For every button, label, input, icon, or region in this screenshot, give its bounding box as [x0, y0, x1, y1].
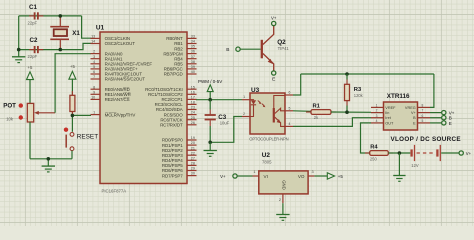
svg-text:V+: V+	[466, 151, 472, 156]
svg-text:E: E	[449, 121, 452, 126]
svg-text:38: 38	[191, 60, 195, 64]
U3 pin 1	[242, 95, 250, 100]
XTR116 pin 1 VREF	[371, 104, 396, 110]
svg-text:28: 28	[191, 162, 195, 166]
U1 pin 9 RE1	[91, 90, 132, 97]
ground (loop supply)	[393, 153, 405, 181]
svg-text:U1: U1	[96, 25, 105, 32]
svg-text:18: 18	[191, 101, 195, 105]
wire RESET bottom to ground rail	[30, 151, 72, 159]
wire ground drop from C1/C2 left plates	[18, 16, 20, 57]
U1 pin 6 RA4	[91, 70, 143, 77]
svg-text:17: 17	[191, 96, 195, 100]
XTR116 pin 7 V+	[411, 109, 430, 115]
U1 pin 23 RC4	[156, 106, 197, 113]
svg-text:V+: V+	[411, 111, 417, 115]
wire POT bottom to ground rail	[29, 122, 31, 159]
U1 pin 27 RD4	[162, 156, 197, 163]
junction battery/ground	[398, 151, 402, 155]
label VLOOP / DC SOURCE	[391, 136, 461, 143]
U1 pin 19 RD0	[162, 136, 197, 143]
ground (oscillator)	[12, 57, 25, 63]
node V+ (battery)	[441, 151, 471, 156]
U1 pin 8 RE0	[91, 85, 131, 92]
svg-text:R4: R4	[370, 144, 378, 150]
node B terminal	[226, 47, 240, 53]
svg-text:15: 15	[191, 85, 195, 89]
U1 pin 40 RB7	[164, 70, 197, 77]
resistor R4 250	[365, 144, 393, 161]
capacitor C3 10uF	[205, 100, 230, 143]
svg-text:13: 13	[91, 35, 95, 39]
U1 pin 2 RA0	[91, 50, 124, 57]
svg-text:RE1/AN6/W̅R̅: RE1/AN6/W̅R̅	[105, 91, 131, 97]
svg-text:R1: R1	[313, 103, 321, 109]
svg-text:7805: 7805	[262, 159, 272, 164]
svg-text:V+: V+	[271, 15, 277, 20]
U1 pin 17 RC2	[161, 96, 196, 103]
svg-text:RD7/PSP7: RD7/PSP7	[162, 173, 183, 178]
svg-text:OPTOCOUPLER-NPN: OPTOCOUPLER-NPN	[249, 137, 288, 142]
U1 pin 18 RC3	[155, 101, 197, 108]
U1 pin 1 M&#x305;C&#x305;L&#x305;R&#x305;	[91, 111, 136, 118]
regulator U2 7805	[253, 152, 315, 203]
svg-text:19: 19	[191, 136, 195, 140]
junction R1/R3	[345, 110, 349, 114]
svg-text:+5: +5	[28, 65, 34, 70]
svg-text:4: 4	[289, 122, 291, 126]
svg-text:22pF: 22pF	[28, 21, 38, 26]
junction C1/crystal	[59, 14, 63, 18]
svg-text:33: 33	[191, 35, 195, 39]
wire C2 net / crystal bottom to OSC2	[19, 43, 91, 49]
potentiometer POT 10k	[3, 103, 55, 122]
U1 pin 24 RC5	[164, 111, 197, 118]
svg-text:6: 6	[93, 70, 95, 74]
ground (7805)	[276, 203, 289, 220]
U3 pin 2	[242, 112, 250, 117]
svg-text:39: 39	[191, 65, 195, 69]
svg-text:1: 1	[243, 95, 245, 99]
node V+ (XTR)	[430, 110, 455, 115]
svg-text:1: 1	[93, 111, 95, 115]
U1 pin 33 RB0	[166, 35, 196, 42]
wire opto pin4 to XTR Iret	[293, 118, 371, 127]
wire XTR OUT down to R4	[361, 123, 372, 153]
U1 pin 26 RC7	[160, 121, 196, 128]
svg-text:VI: VI	[264, 174, 268, 179]
U1 pin 28 RD5	[162, 162, 197, 169]
svg-text:22: 22	[191, 151, 195, 155]
U1 pin 38 RB5	[174, 60, 196, 67]
svg-text:PWM / 0-5V: PWM / 0-5V	[198, 79, 222, 84]
XTR116 pin 4 OUT	[371, 119, 394, 125]
svg-text:C2: C2	[30, 37, 38, 44]
U3 internal phototransistor	[274, 96, 285, 127]
svg-text:10: 10	[91, 96, 95, 100]
junction C2/crystal	[59, 48, 63, 52]
wire C1 net to crystal top and OSC1	[19, 16, 91, 38]
svg-text:5: 5	[289, 106, 291, 110]
svg-text:40: 40	[191, 70, 195, 74]
wire opto pin6 to top rail	[293, 74, 301, 95]
svg-text:21: 21	[191, 146, 195, 150]
svg-text:2: 2	[243, 112, 245, 116]
svg-text:16: 16	[191, 90, 195, 94]
resistor R2 pull-up	[70, 91, 75, 115]
optocoupler U3 body	[249, 87, 288, 142]
op-amp XTR116 body	[384, 93, 418, 130]
XTR116 pin 5 E	[413, 119, 430, 125]
U1 pin 22 RD3	[162, 151, 197, 158]
svg-text:20: 20	[191, 141, 195, 145]
wire opto pin5 to R1	[293, 110, 311, 113]
node PWM / 0-5V	[198, 79, 222, 100]
svg-text:POT: POT	[3, 103, 16, 110]
U1 pin 34 RB1	[174, 40, 196, 47]
svg-text:RB7/PGD: RB7/PGD	[164, 72, 183, 77]
transistor Q2 TIP41	[262, 26, 290, 71]
svg-text:1: 1	[376, 104, 378, 108]
svg-text:2: 2	[93, 50, 95, 54]
U3 internal LED	[250, 100, 265, 117]
svg-text:U3: U3	[251, 87, 260, 94]
svg-text:30: 30	[191, 172, 195, 176]
XTR116 pin 6 B	[413, 114, 430, 120]
U1 pin 35 RB2	[174, 45, 196, 52]
U1 pin 39 RB6	[164, 65, 197, 72]
svg-text:24: 24	[191, 111, 195, 115]
svg-text:27: 27	[191, 156, 195, 160]
svg-text:8: 8	[93, 85, 95, 89]
wire VREG to top rail	[430, 74, 434, 107]
junction PWM/C3	[208, 98, 212, 102]
junction C2/ground	[17, 48, 21, 52]
svg-text:250: 250	[370, 157, 378, 162]
svg-text:RA5/AN4/S̅S̅/C2OUT: RA5/AN4/S̅S̅/C2OUT	[105, 76, 146, 82]
svg-text:23: 23	[191, 106, 195, 110]
XTR116 pin 8 VREG	[405, 104, 430, 110]
svg-text:X1: X1	[72, 30, 80, 37]
junction MCLR	[71, 114, 75, 118]
U1 pin 14 OSC2	[91, 40, 136, 47]
svg-text:4: 4	[93, 60, 95, 64]
svg-text:PIC16F877A: PIC16F877A	[102, 188, 127, 193]
svg-text:VREF: VREF	[385, 106, 396, 110]
svg-text:OUT: OUT	[385, 121, 394, 125]
svg-text:OSC2/CLKOUT: OSC2/CLKOUT	[105, 41, 136, 46]
U3 pin 4	[285, 122, 293, 127]
svg-text:4: 4	[376, 119, 378, 123]
junction ground rail	[47, 157, 51, 161]
svg-text:6: 6	[289, 91, 291, 95]
wire MCLR net	[72, 115, 91, 131]
resistor R1 2k	[306, 103, 336, 120]
svg-text:RESET: RESET	[77, 133, 98, 140]
capacitor C1	[28, 4, 44, 26]
svg-text:TIP41: TIP41	[278, 46, 290, 51]
ground (C3)	[204, 142, 217, 156]
U1 pin 25 RC6	[160, 116, 196, 123]
svg-text:22pF: 22pF	[28, 54, 38, 59]
power +5 output arrow	[314, 173, 343, 179]
svg-text:VO: VO	[298, 174, 305, 179]
wire R4 to battery	[388, 152, 410, 154]
U1 pin 30 RD7	[162, 172, 197, 179]
svg-text:Iret: Iret	[385, 116, 391, 120]
svg-text:5: 5	[422, 119, 424, 123]
svg-text:+5: +5	[338, 174, 344, 179]
wire POT wiper to RA0	[55, 54, 91, 113]
wire B to Q2 base	[240, 48, 261, 50]
svg-text:7: 7	[93, 75, 95, 79]
wire V+ to U2 VI	[237, 175, 252, 177]
svg-text:37: 37	[191, 55, 195, 59]
svg-text:3: 3	[376, 114, 378, 118]
junction C3/ground	[208, 141, 212, 145]
svg-text:36: 36	[191, 50, 195, 54]
svg-text:E: E	[272, 77, 275, 83]
node V+ (Q2 collector)	[271, 15, 277, 25]
XTR116 pin 2 Iin	[371, 109, 389, 115]
U1 pin 10 RE2	[91, 96, 131, 103]
XTR116 pin 3 Iret	[371, 114, 392, 120]
svg-text:26: 26	[191, 121, 195, 125]
op-amp U1 PIC16F877A body	[96, 25, 187, 194]
U1 pin 16 RC1	[148, 90, 197, 97]
wire R1 to XTR Iin	[331, 111, 371, 113]
svg-text:2: 2	[376, 109, 378, 113]
svg-text:+5: +5	[70, 64, 76, 69]
battery 12V	[411, 145, 440, 168]
svg-text:Iin: Iin	[385, 111, 389, 115]
node V+ (7805 input)	[220, 174, 237, 179]
wire top rail	[301, 73, 434, 75]
junction rail/R3	[345, 72, 349, 76]
U1 pin 20 RD1	[162, 141, 197, 148]
svg-text:35: 35	[191, 45, 195, 49]
wire RC2 to opto pin1	[196, 99, 242, 101]
push button RESET	[64, 128, 98, 151]
svg-text:XTR116: XTR116	[387, 93, 410, 100]
U1 pin 37 RB4	[174, 55, 196, 62]
svg-text:8: 8	[422, 104, 424, 108]
capacitor C2	[28, 37, 44, 59]
U1 pin 13 OSC1	[91, 35, 130, 42]
svg-text:12V: 12V	[411, 163, 419, 168]
U3 pin 5	[285, 106, 293, 111]
svg-text:9: 9	[93, 90, 95, 94]
svg-text:10uF: 10uF	[220, 121, 230, 126]
svg-text:VLOOP / DC SOURCE: VLOOP / DC SOURCE	[391, 136, 461, 143]
U1 pin 21 RD2	[162, 146, 197, 153]
svg-text:34: 34	[191, 40, 195, 44]
U1 pin 5 RA3	[91, 65, 138, 72]
node E (XTR)	[430, 121, 452, 126]
U1 pin 3 RA1	[91, 55, 124, 62]
svg-text:C1: C1	[29, 4, 37, 11]
svg-text:U2: U2	[262, 152, 271, 159]
node B (XTR)	[430, 116, 452, 121]
svg-text:V+: V+	[220, 174, 226, 179]
svg-text:10k: 10k	[6, 116, 14, 121]
svg-text:7: 7	[422, 109, 424, 113]
svg-text:5: 5	[93, 65, 95, 69]
svg-text:M̅C̅L̅R̅/Vpp/THV: M̅C̅L̅R̅/Vpp/THV	[104, 111, 135, 117]
ground (reset rail)	[42, 159, 55, 172]
svg-text:RE2/AN7/C̅S̅: RE2/AN7/C̅S̅	[105, 96, 131, 102]
U1 pin 15 RC0	[145, 85, 196, 92]
svg-text:B: B	[226, 47, 229, 53]
svg-text:6: 6	[422, 114, 424, 118]
svg-text:3: 3	[312, 170, 314, 174]
svg-text:29: 29	[191, 167, 195, 171]
svg-text:2: 2	[279, 198, 281, 202]
node E (Q2 emitter)	[272, 71, 276, 83]
svg-text:RC7/RX/DT: RC7/RX/DT	[160, 122, 183, 127]
wire C3 bottom to opto pin2	[210, 117, 242, 143]
svg-text:120k: 120k	[354, 93, 364, 98]
svg-text:1: 1	[253, 170, 255, 174]
power +5 (POT)	[27, 65, 34, 104]
svg-text:GND: GND	[282, 180, 287, 190]
power +5 (reset pull-up)	[69, 64, 76, 95]
resistor R3 120k	[345, 74, 364, 112]
svg-text:25: 25	[191, 116, 195, 120]
svg-text:VREG: VREG	[405, 106, 416, 110]
U1 pin 29 RD6	[162, 167, 197, 174]
U3 pin 6	[285, 91, 293, 96]
U1 pin 4 RA2	[91, 60, 153, 67]
svg-text:3: 3	[93, 55, 95, 59]
U1 pin 7 RA5	[91, 75, 146, 82]
crystal X1	[50, 16, 80, 50]
svg-text:14: 14	[91, 40, 95, 44]
U1 pin 36 RB3	[163, 50, 196, 57]
